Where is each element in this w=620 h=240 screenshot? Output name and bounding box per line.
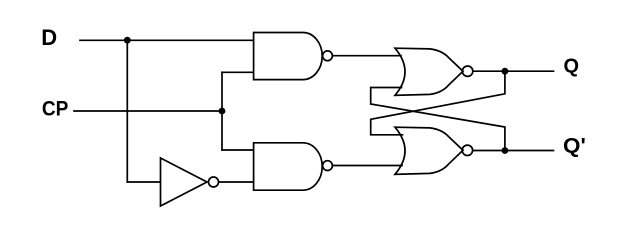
inverter U3 bubble: [209, 177, 219, 187]
junction dot on D line: [124, 37, 131, 44]
nor gate U4 body: [395, 48, 463, 95]
junction dot node Q': [502, 147, 509, 154]
nand gate U2 bubble: [323, 161, 333, 171]
wire feedback Q to NOR2 input: [371, 71, 505, 135]
nand gate U2 body: [254, 143, 323, 190]
nor gate U5 body: [395, 127, 463, 174]
nor gate U5 bubble: [462, 145, 472, 155]
svg-text:CP: CP: [42, 97, 69, 120]
wire D vertical to inverter: [126, 40, 128, 182]
nand gate U1 body: [254, 33, 323, 80]
wire NOR2 output to Q': [473, 150, 554, 152]
wire CP input horizontal: [74, 110, 222, 112]
wire inverter output to NAND2 lower input: [219, 181, 253, 183]
junction dot on CP line: [219, 108, 226, 115]
wire feedback Q' to NOR1 input: [371, 88, 505, 151]
wire CP to NAND1 lower input: [222, 71, 253, 73]
svg-text:Q': Q': [563, 134, 586, 158]
wire NAND2 output to NOR2 input: [333, 165, 403, 167]
svg-text:Q: Q: [564, 55, 580, 77]
wire CP vertical branch: [221, 72, 223, 150]
wire D input horizontal: [80, 39, 253, 41]
inverter U3 body: [161, 158, 208, 206]
wire NOR1 output to Q: [473, 70, 554, 72]
junction dot node Q: [502, 68, 509, 75]
wire NAND1 output to NOR1 input: [333, 55, 401, 57]
wire inverter input: [127, 181, 160, 183]
nor gate U4 bubble: [462, 66, 472, 76]
svg-text:D: D: [41, 25, 57, 50]
wire CP to NAND2 upper input: [222, 149, 253, 151]
nand gate U1 bubble: [323, 51, 333, 61]
